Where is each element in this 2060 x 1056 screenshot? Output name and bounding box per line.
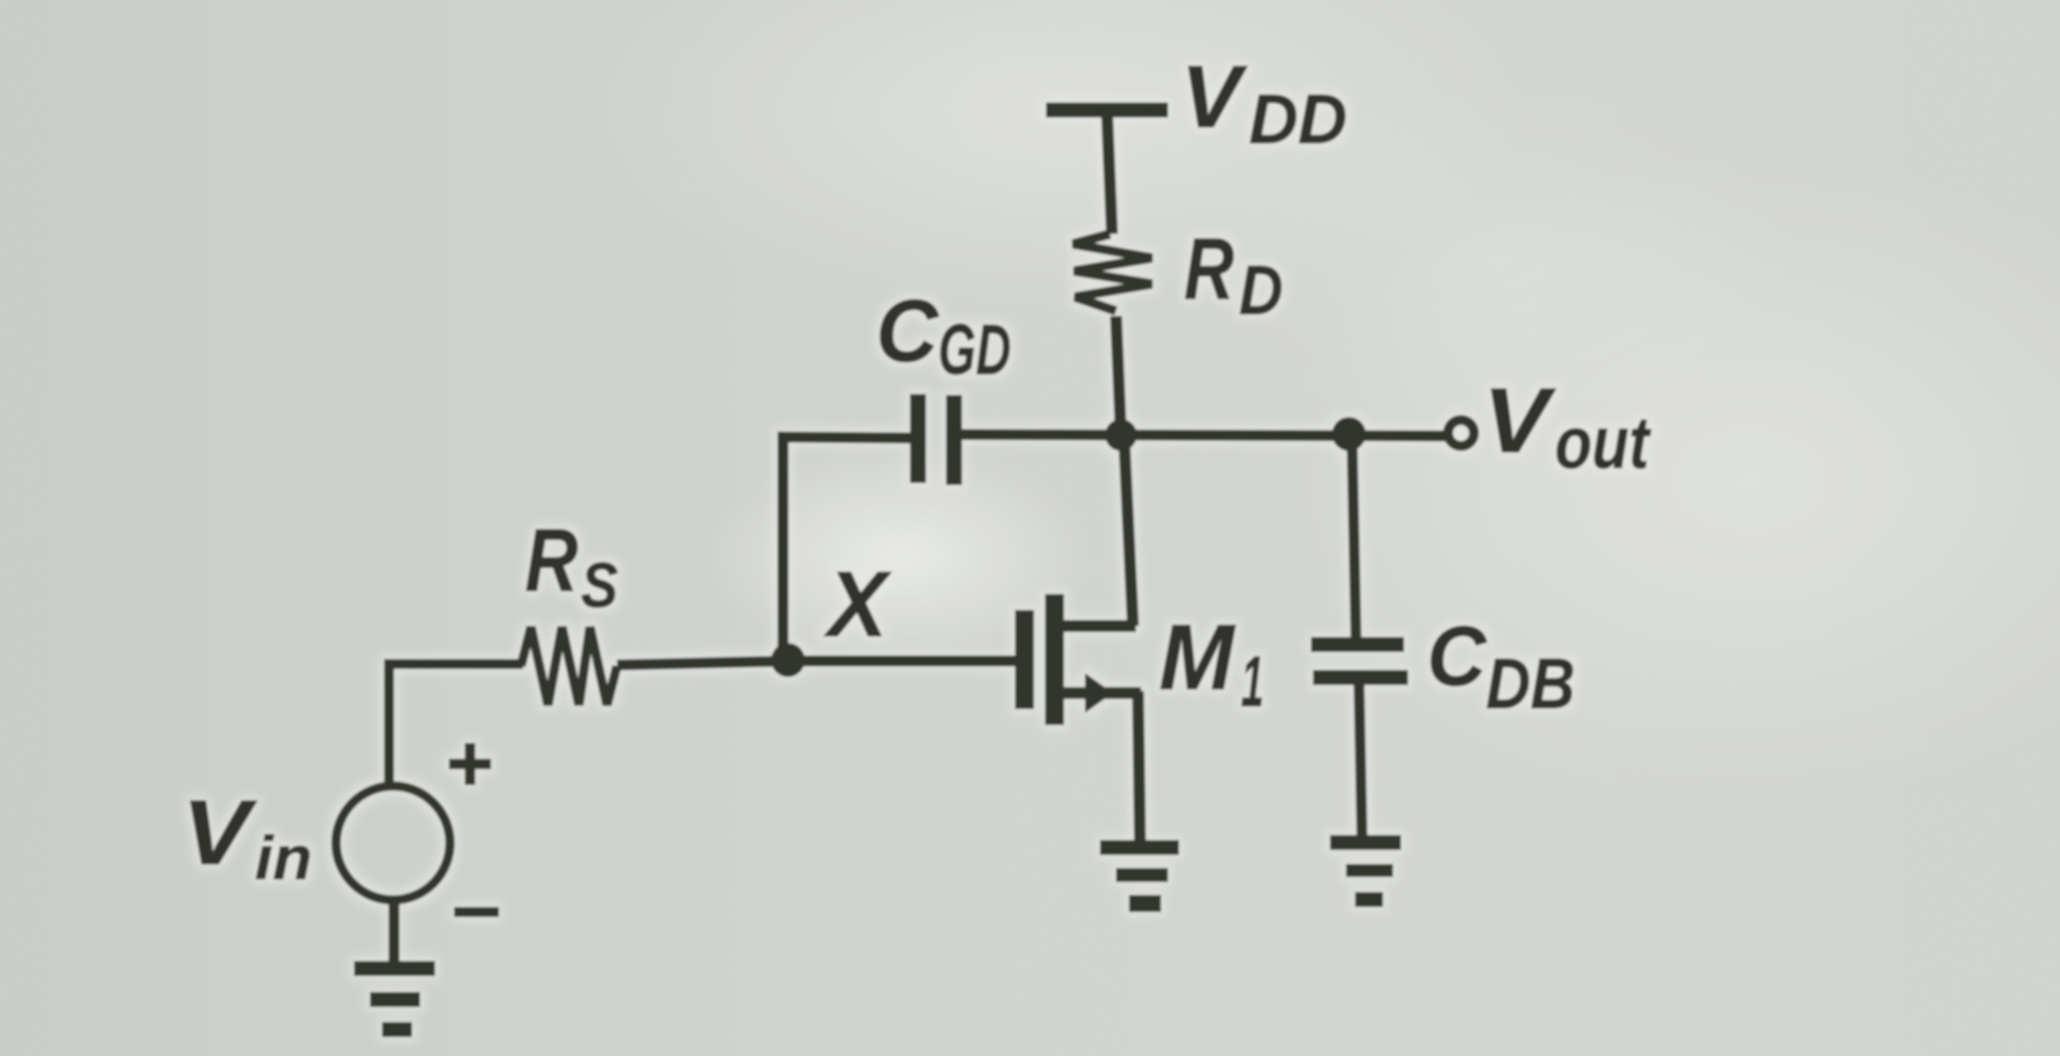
terminal Vout open circle <box>1448 420 1474 446</box>
node X junction <box>771 643 805 677</box>
label Vout <box>1483 370 1651 484</box>
wire output branch down <box>1352 438 1356 639</box>
wire Vin to ground <box>389 899 400 963</box>
plus sign <box>449 743 491 785</box>
source Vin circle <box>336 786 450 900</box>
capacitor CGD <box>910 394 962 485</box>
minus sign <box>454 907 499 917</box>
power VDD supply bar <box>1046 110 1168 234</box>
label RD <box>1184 221 1283 329</box>
label RS <box>525 510 618 621</box>
wire CGD loop left <box>783 437 912 655</box>
label VDD <box>1181 47 1347 158</box>
label CGD <box>876 281 1011 390</box>
resistor RS <box>521 627 617 705</box>
label Vin <box>182 782 312 892</box>
wire RS to node X <box>617 661 789 665</box>
ground under CDB <box>1330 835 1401 907</box>
node output junction <box>1332 417 1366 451</box>
label M1 <box>1159 605 1264 722</box>
node drain junction <box>1105 419 1137 451</box>
wire RD to drain node <box>1116 316 1121 436</box>
wire gate <box>789 656 1016 667</box>
ground under M1 <box>1100 840 1179 912</box>
capacitor CDB <box>1311 637 1408 685</box>
wire CDB to ground <box>1359 684 1362 837</box>
ground under Vin <box>354 961 435 1037</box>
transistor M1 <box>1015 436 1141 842</box>
label CDB <box>1427 609 1575 724</box>
wire drain bus <box>959 435 1448 437</box>
resistor RD <box>1073 234 1152 311</box>
wire Vin riser <box>389 664 523 785</box>
